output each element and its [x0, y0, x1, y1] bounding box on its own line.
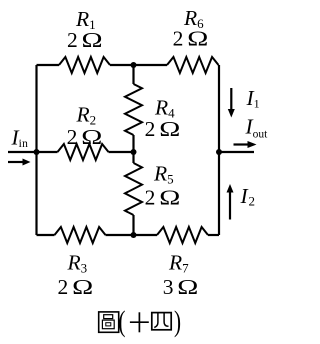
arrow I_out [234, 141, 257, 148]
svg-text:(: ( [118, 305, 125, 338]
resistor R5 [125, 163, 142, 215]
svg-text:2: 2 [145, 186, 156, 210]
wire below R5 [132, 215, 134, 235]
svg-text:R4: R4 [154, 96, 175, 121]
wire top node to R6 [134, 64, 168, 66]
resistor R4 [125, 84, 142, 135]
arrow I1 (down) [228, 88, 235, 118]
svg-text:2: 2 [145, 117, 156, 141]
svg-text:Ω: Ω [177, 276, 198, 299]
wire R2 to center node [109, 151, 134, 153]
svg-text:Ω: Ω [81, 126, 102, 149]
resistor R6 [167, 57, 219, 73]
arrow I2 (up) [227, 184, 234, 220]
wire between center node and R5 [132, 152, 134, 163]
svg-text:2: 2 [67, 28, 78, 52]
svg-text:2: 2 [67, 125, 78, 149]
node center (R2/R4/R5 junction) [131, 149, 137, 155]
wire bottom-left lead [37, 234, 55, 236]
svg-text:I2: I2 [240, 184, 255, 209]
node top (R1/R6/R4 junction) [131, 62, 137, 68]
svg-text:Ω: Ω [187, 28, 208, 51]
wire I_out lead [219, 151, 254, 153]
resistor R2 [58, 144, 109, 160]
svg-text:I1: I1 [246, 86, 260, 111]
wire R3 to bottom node [106, 234, 134, 236]
svg-text:): ) [174, 305, 181, 338]
caption glyph four [152, 313, 171, 330]
wire middle-left lead [37, 151, 58, 153]
wire center vertical top lead of R4 [132, 65, 134, 84]
svg-text:R7: R7 [168, 251, 189, 276]
svg-text:2: 2 [173, 27, 184, 51]
caption glyph TU (figure) [99, 312, 119, 332]
svg-text:Iin: Iin [11, 126, 29, 151]
wire R1 to top node [110, 64, 134, 66]
wire I_in lead [8, 151, 37, 153]
wire right vertical [218, 65, 220, 235]
svg-text:R2: R2 [76, 103, 97, 128]
node I_out junction [216, 149, 222, 155]
svg-text:Ω: Ω [82, 29, 103, 52]
node I_in junction [34, 149, 40, 155]
wire between R4 and center node [132, 135, 134, 152]
svg-text:Ω: Ω [72, 276, 93, 299]
wire bottom node to R7 [134, 234, 158, 236]
resistor R3 [55, 227, 106, 243]
wire left vertical [35, 65, 37, 235]
arrow I_in [8, 159, 31, 166]
node bottom (R3/R7/R5 junction) [131, 232, 137, 238]
svg-text:Ω: Ω [159, 118, 180, 141]
caption glyph ten [130, 312, 149, 332]
resistor R7 [157, 227, 208, 243]
wire R7 to bottom-right corner [208, 234, 219, 236]
svg-text:2: 2 [58, 275, 69, 299]
wire top-left lead [37, 64, 60, 66]
resistor R1 [59, 57, 110, 73]
svg-text:Iout: Iout [245, 115, 269, 141]
svg-text:R3: R3 [67, 251, 88, 276]
svg-text:Ω: Ω [159, 187, 180, 210]
svg-text:R5: R5 [153, 162, 174, 187]
svg-text:3: 3 [163, 275, 174, 299]
